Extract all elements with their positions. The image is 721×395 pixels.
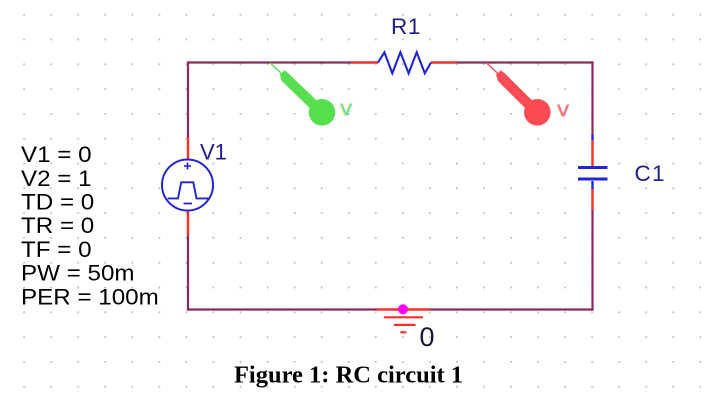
svg-text:R1: R1 — [391, 14, 421, 39]
svg-text:C1: C1 — [635, 161, 666, 186]
svg-text:V1 = 0: V1 = 0 — [21, 142, 92, 167]
label V (red marker) — [557, 100, 570, 120]
wire top-right from resistor to corner — [457, 61, 594, 63]
voltage marker green — [270, 63, 335, 126]
wire top-left to resistor — [188, 61, 352, 63]
label C1 — [635, 161, 666, 186]
capacitor C1 — [578, 168, 608, 180]
label V1 — [200, 140, 227, 165]
svg-text:0: 0 — [420, 322, 435, 352]
ground 0 — [377, 310, 430, 333]
svg-text:TF = 0: TF = 0 — [21, 237, 92, 262]
svg-text:V: V — [558, 100, 570, 120]
wire left vertical upper — [187, 61, 189, 137]
pin stub below capacitor C1 — [591, 181, 593, 210]
wire bottom right segment — [430, 308, 594, 310]
wire left vertical lower — [187, 236, 189, 311]
svg-text:Figure 1: RC circuit 1: Figure 1: RC circuit 1 — [234, 362, 463, 389]
svg-text:TD = 0: TD = 0 — [21, 190, 94, 215]
svg-text:PW = 50m: PW = 50m — [21, 261, 135, 286]
svg-text:PER = 100m: PER = 100m — [21, 284, 159, 309]
pin stub above capacitor C1 — [591, 135, 593, 166]
wire right vertical lower — [591, 210, 593, 311]
junction dot — [398, 304, 408, 314]
svg-text:V1: V1 — [200, 140, 227, 165]
label 0 — [420, 322, 435, 352]
svg-text:V2 = 1: V2 = 1 — [21, 166, 92, 191]
source parameters text — [21, 142, 159, 309]
wire right vertical upper — [591, 61, 593, 136]
label V (green marker) — [340, 99, 353, 119]
pin stub below source V1 — [187, 210, 189, 236]
wire bottom left segment — [187, 308, 377, 310]
pin stub left of resistor R1 — [351, 61, 378, 63]
voltage source V1 (pulse) — [162, 160, 213, 211]
pin stub above source V1 — [187, 137, 189, 161]
svg-text:V: V — [341, 99, 353, 119]
pin stub right of resistor R1 — [431, 61, 457, 63]
voltage marker red — [486, 63, 550, 126]
caption Figure 1: RC circuit 1 — [234, 362, 463, 389]
resistor R1 — [378, 52, 431, 73]
label R1 — [391, 14, 421, 39]
svg-text:TR = 0: TR = 0 — [21, 213, 94, 238]
